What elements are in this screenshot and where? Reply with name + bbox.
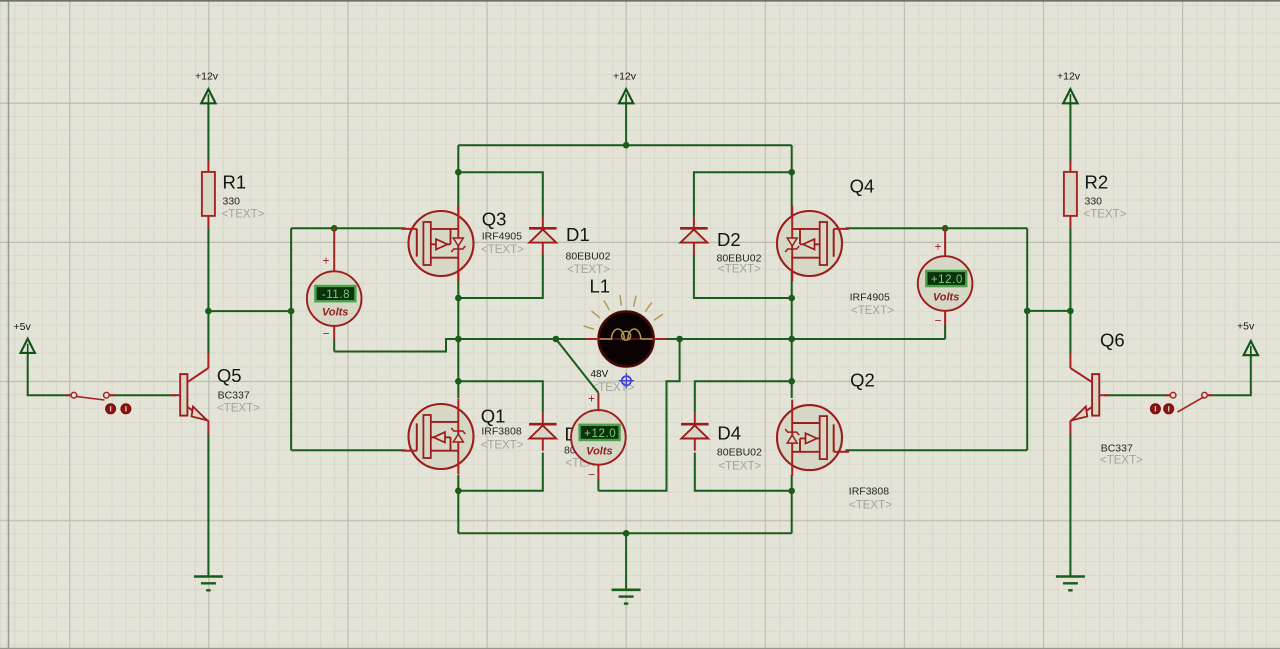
junction lamp left rail: [455, 336, 462, 343]
svg-text:BC337: BC337: [218, 390, 250, 402]
wire node DRVR horizontal: [1027, 310, 1070, 312]
junction D1 anode rail: [455, 295, 462, 302]
power +12v right: [1057, 71, 1081, 104]
wire D1 anode to rail: [458, 255, 543, 299]
label Q2: [849, 370, 892, 512]
svg-text:D4: D4: [717, 423, 741, 444]
mosfet Q2: [777, 400, 849, 476]
svg-text:<TEXT>: <TEXT>: [481, 440, 524, 452]
wire R2 bottom to node DRVR: [1069, 227, 1071, 311]
wire +12v right rail to R2: [1069, 103, 1071, 161]
wire Q3 gate: [291, 227, 405, 229]
power +12v left: [195, 71, 219, 104]
wire bottom rail: [458, 532, 791, 534]
svg-text:48V: 48V: [591, 369, 609, 380]
label Q3: [481, 209, 524, 257]
mosfet Q3: [402, 206, 474, 282]
wire Q6 collector: [1069, 311, 1071, 354]
svg-text:IRF4905: IRF4905: [482, 231, 522, 243]
svg-text:D2: D2: [717, 229, 741, 250]
svg-text:R2: R2: [1085, 172, 1109, 193]
wire +12v center stem: [625, 103, 627, 145]
wire lamp left to rail: [458, 338, 586, 340]
wire bottom rail to ground: [625, 533, 627, 590]
wire D2 anode to rail: [694, 255, 792, 299]
voltmeter VM1: [307, 271, 362, 326]
wire VM2 minus lead: [588, 465, 598, 491]
junction node DRVL right: [288, 308, 295, 315]
voltmeter VM3: [918, 256, 973, 311]
svg-text:330: 330: [1085, 196, 1103, 208]
svg-text:IRF3808: IRF3808: [481, 426, 521, 438]
transistor Q5: [171, 353, 209, 434]
label Q6: [1100, 330, 1143, 467]
wire VM1 minus to mid rail: [334, 339, 458, 352]
wire D2 top feed: [694, 172, 792, 217]
diode D2: [680, 217, 708, 255]
label L1: [590, 276, 635, 395]
svg-text:Q3: Q3: [482, 209, 507, 230]
svg-text:L1: L1: [590, 276, 611, 297]
svg-text:80EBU02: 80EBU02: [566, 251, 611, 263]
junction D3 anode rail: [455, 488, 462, 495]
wire R1 bottom to node DRVL: [207, 227, 209, 311]
svg-text:<TEXT>: <TEXT>: [222, 209, 265, 221]
wire left rail Q3-Q1: [457, 172, 459, 398]
junction D4 anode rail: [788, 488, 795, 495]
svg-text:+12.0: +12.0: [584, 428, 616, 440]
svg-text:+12v: +12v: [1057, 71, 1081, 83]
wire +12v left rail to R1: [207, 103, 209, 161]
svg-text:80EBU02: 80EBU02: [717, 447, 762, 459]
wire Q2 gate: [846, 449, 1028, 451]
wire left rail below Q1: [457, 475, 459, 533]
label D1: [566, 224, 611, 276]
svg-text:+: +: [588, 392, 595, 406]
ground right: [1056, 577, 1085, 591]
wire D4 anode to rail: [695, 453, 792, 491]
power +5v left: [14, 321, 35, 353]
junction D4 cathode rail: [788, 378, 795, 385]
junction node DRVR at R2: [1067, 308, 1074, 315]
transistor Q6: [1070, 353, 1108, 434]
lamp L1: [584, 295, 663, 367]
label D2: [717, 229, 762, 276]
label D4: [717, 423, 762, 473]
mosfet Q1: [402, 399, 474, 475]
wire VM1 plus lead: [323, 228, 335, 272]
ground center: [612, 590, 641, 604]
svg-text:<TEXT>: <TEXT>: [718, 264, 761, 276]
svg-text:330: 330: [223, 196, 241, 208]
wire Q5 emitter to ground: [207, 434, 209, 577]
wire VM3 plus lead: [935, 228, 946, 256]
wire D3 anode to bottom rail: [458, 453, 543, 491]
junction D2 anode rail: [788, 295, 795, 302]
svg-text:Q1: Q1: [481, 406, 506, 427]
label Q5: [217, 365, 260, 415]
lamp L1 pins: [586, 338, 667, 340]
wire right rail Q4-Q2: [791, 172, 793, 398]
svg-text:−: −: [935, 314, 942, 328]
diode D4: [681, 413, 709, 451]
ground left: [194, 577, 223, 591]
wire +5v left to switch: [28, 352, 71, 395]
junction node DRVL left: [205, 308, 212, 315]
wire VM2 plus diagonal: [556, 339, 599, 411]
wire Q5 collector: [207, 311, 209, 354]
svg-text:+12v: +12v: [195, 71, 219, 83]
switch SW2 toggle: [1149, 402, 1176, 415]
resistor R1: [202, 161, 215, 228]
junction VM1 plus tap: [331, 225, 338, 232]
label Q1: [481, 406, 524, 452]
svg-text:Q2: Q2: [850, 370, 875, 391]
svg-text:R1: R1: [223, 172, 247, 193]
svg-text:+5v: +5v: [1237, 321, 1255, 333]
wire D1 top feed: [458, 172, 543, 217]
wire lamp- sense path: [598, 339, 679, 491]
diode D1: [529, 217, 557, 255]
junction lamp left node: [553, 336, 560, 343]
junction VM3 plus tap: [942, 225, 949, 232]
svg-text:<TEXT>: <TEXT>: [849, 500, 892, 512]
svg-text:IRF4905: IRF4905: [850, 291, 890, 303]
wire gate-drive right vertical: [1026, 228, 1028, 450]
svg-text:<TEXT>: <TEXT>: [1100, 455, 1143, 467]
switch SW2: [1165, 392, 1213, 412]
junction right rail top: [788, 169, 795, 176]
wire Q6 base to switch SW2: [1104, 394, 1170, 396]
wire VM1 minus lead: [323, 325, 335, 351]
wire right rail below Q2: [791, 475, 793, 533]
wire lamp right to voltmeter row: [667, 338, 946, 340]
diode D3: [529, 413, 557, 451]
svg-text:<TEXT>: <TEXT>: [567, 264, 610, 276]
power +5v right: [1237, 321, 1258, 356]
wire top rail left corner down: [457, 145, 459, 172]
svg-text:IRF3808: IRF3808: [849, 486, 889, 498]
svg-text:D1: D1: [566, 224, 590, 245]
switch SW1: [66, 392, 115, 400]
resistor R2: [1064, 161, 1077, 228]
wire Q6 emitter to ground: [1069, 434, 1071, 577]
svg-text:Volts: Volts: [586, 445, 613, 457]
power +12v center: [613, 71, 637, 104]
label R1: [222, 172, 265, 221]
svg-text:<TEXT>: <TEXT>: [1084, 209, 1127, 221]
label R2: [1084, 172, 1127, 221]
svg-text:Q6: Q6: [1100, 330, 1125, 351]
junction D3 cathode rail: [455, 378, 462, 385]
wire Q1 gate: [291, 449, 405, 451]
junction lamp right rail: [788, 336, 795, 343]
wire switch SW2 to +5v right: [1208, 354, 1251, 395]
svg-text:-11.8: -11.8: [322, 289, 350, 301]
svg-text:Q4: Q4: [850, 176, 875, 197]
svg-text:−: −: [588, 468, 595, 482]
svg-text:+12.0: +12.0: [931, 274, 963, 286]
wire D3 cathode to rail: [458, 381, 543, 413]
voltmeter VM2: [571, 410, 626, 465]
wire D4 cathode to rail: [695, 381, 792, 413]
mosfet Q4: [777, 206, 849, 282]
svg-text:BC337: BC337: [1101, 443, 1133, 455]
svg-text:<TEXT>: <TEXT>: [217, 403, 260, 415]
svg-text:<TEXT>: <TEXT>: [851, 305, 894, 317]
junction lamp right node: [676, 336, 683, 343]
junction left rail top: [455, 169, 462, 176]
wire switch SW1 to Q5 base: [110, 394, 176, 396]
svg-text:Volts: Volts: [322, 307, 349, 319]
label D3: [564, 424, 609, 470]
svg-text:+5v: +5v: [14, 321, 32, 333]
svg-text:−: −: [323, 327, 330, 341]
wire Q4 gate: [846, 227, 1028, 229]
junction bottom rail ground: [623, 530, 630, 537]
switch SW1 toggle: [104, 402, 133, 415]
wire top rail: [458, 144, 791, 146]
origin marker L1: [619, 373, 634, 388]
label Q4: [850, 176, 895, 318]
wire top rail right corner down: [791, 145, 793, 172]
svg-text:+: +: [935, 240, 942, 254]
wire gate-drive left vertical: [290, 228, 292, 450]
svg-text:+: +: [323, 254, 330, 268]
svg-text:Volts: Volts: [933, 292, 960, 304]
junction gate-drive right: [1024, 308, 1031, 315]
svg-text:<TEXT>: <TEXT>: [718, 461, 761, 473]
svg-text:<TEXT>: <TEXT>: [481, 244, 524, 256]
svg-text:Q5: Q5: [217, 365, 242, 386]
wire VM3 minus lead: [935, 311, 946, 340]
wire node DRVL horizontal: [208, 310, 291, 312]
junction +12v top rail: [623, 142, 630, 149]
svg-text:+12v: +12v: [613, 71, 637, 83]
